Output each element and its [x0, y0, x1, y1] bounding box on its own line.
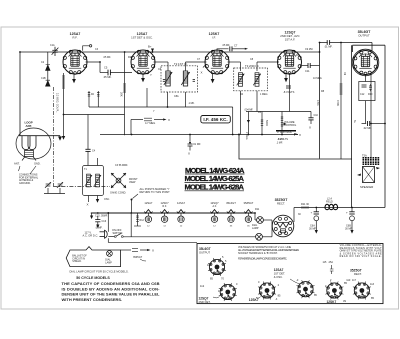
ground arrow under V1 — [73, 73, 75, 79]
capacitor C9 under V4 — [286, 85, 291, 87]
ground arrow under V2 — [142, 73, 144, 78]
svg-text:X: X — [188, 152, 190, 156]
svg-text:X: X — [152, 249, 154, 253]
svg-text:T5A: T5A — [362, 154, 367, 158]
dial lamp note in chart — [330, 265, 334, 274]
diode load resistor chain — [247, 112, 249, 135]
T2 secondary coil — [181, 71, 189, 86]
svg-text:.05 MF.: .05 MF. — [103, 75, 112, 79]
dial lamp lower — [256, 233, 263, 240]
IF transformer T2 dashed box — [161, 66, 198, 92]
svg-text:.1 MF.: .1 MF. — [188, 102, 195, 105]
electrolytic C6B — [351, 208, 353, 212]
wire: AVC line y=107 — [89, 106, 233, 108]
svg-text:2ND DET.: 2ND DET. — [199, 300, 211, 304]
svg-text:A.F.: A.F. — [212, 205, 216, 208]
svg-text:30 MF.: 30 MF. — [309, 227, 317, 230]
svg-text:117: 117 — [207, 264, 212, 267]
filter choke L2 — [325, 204, 338, 209]
heater H6 — [244, 210, 252, 223]
T3 primary coil — [237, 73, 245, 87]
socket S3 12SK7 — [258, 282, 276, 300]
wire: plug top to bus — [107, 213, 109, 232]
svg-text:2 MEG: 2 MEG — [245, 132, 248, 140]
heater H3 — [177, 210, 185, 223]
resistor R12 at power entry — [137, 213, 139, 226]
wire: right vertical x=385 — [384, 45, 386, 207]
svg-text:12SK7: 12SK7 — [327, 300, 337, 304]
svg-text:SHIELD.: SHIELD. — [72, 260, 82, 263]
wire: T2 secondary to V3 grid — [185, 62, 187, 71]
svg-text:C16: C16 — [102, 220, 107, 223]
svg-text:117: 117 — [218, 290, 223, 293]
wire: feed line — [246, 111, 311, 113]
svg-text:R12: R12 — [140, 219, 145, 222]
resistor R9 vertical — [340, 43, 342, 160]
wire: x=89 vertical — [88, 91, 90, 107]
svg-text:35L6GT: 35L6GT — [199, 247, 211, 251]
capacitor C10a to X — [310, 112, 312, 118]
MODEL text block — [185, 166, 246, 192]
svg-text:12SA7: 12SA7 — [274, 268, 284, 272]
svg-text:+: + — [311, 211, 313, 215]
socket S4 12SA7 — [297, 280, 315, 298]
heater voltage numbers — [147, 226, 250, 228]
svg-text:20K: 20K — [120, 92, 124, 97]
wire: V4 down to volume region — [289, 73, 291, 112]
wire: T3 secondary to V4 — [256, 62, 258, 71]
ground arrow under V3 — [212, 73, 214, 79]
svg-text:SOCKET TERMINALS & 'B' POINT.: SOCKET TERMINALS & 'B' POINT. — [238, 252, 278, 255]
capacitor C14 — [362, 123, 367, 125]
wire: v2 cathode vertical — [142, 73, 144, 107]
svg-text:4.7 MEG: 4.7 MEG — [145, 121, 155, 125]
wire: V1 plate to C5 — [86, 62, 100, 73]
wire: V5 plate down to T5 — [370, 74, 372, 159]
svg-text:R.F.: R.F. — [162, 205, 167, 208]
capacitor C5 coupling — [100, 72, 108, 74]
T2 trimmers — [163, 79, 165, 81]
on-off switch — [108, 236, 114, 238]
socket S5 12SK7 — [325, 282, 343, 300]
ground under T1 — [97, 196, 99, 200]
svg-text:1ST DET & OSC.: 1ST DET & OSC. — [131, 36, 153, 40]
resistor R3 horizontal — [131, 119, 143, 121]
svg-text:1 MEG: 1 MEG — [260, 93, 268, 96]
IF 456 KC badge — [201, 116, 231, 123]
output transformer T5 — [363, 158, 380, 183]
svg-text:& OSC.: & OSC. — [274, 275, 283, 279]
wire: AC line lower — [108, 238, 197, 242]
svg-text:RETURN TO THIS POINT: RETURN TO THIS POINT — [140, 190, 171, 194]
svg-text:R11 30: R11 30 — [301, 203, 309, 206]
ground arrow below R1 — [63, 115, 65, 137]
svg-text:117: 117 — [352, 279, 357, 282]
heater H1 — [144, 210, 152, 223]
wire: T2 secondary return — [185, 92, 187, 107]
svg-text:113: 113 — [370, 283, 375, 286]
wire: vertical through padders — [47, 52, 49, 86]
wire: Y node vertical — [131, 135, 133, 138]
heater H2 — [160, 210, 168, 223]
svg-text:RECT.: RECT. — [277, 202, 285, 206]
svg-text:-8 VOLTS: -8 VOLTS — [283, 90, 295, 94]
dial lamp upper — [257, 217, 264, 224]
svg-text:R10: R10 — [368, 93, 373, 96]
tube V5 35L6GT output — [352, 49, 379, 76]
volume control pot — [281, 112, 283, 135]
svg-text:OSC.: OSC. — [104, 198, 110, 201]
svg-text:.05 MF.: .05 MF. — [103, 56, 111, 59]
svg-text:GANG COND.: GANG COND. — [110, 192, 126, 195]
tube V1 12SA7 R.F. — [63, 50, 87, 74]
svg-text:12SA7: 12SA7 — [144, 201, 153, 205]
tube V3 12SK7 I.F. — [205, 50, 229, 74]
svg-text:30 MF.: 30 MF. — [345, 227, 353, 230]
svg-text:GROUND.: GROUND. — [19, 182, 31, 185]
svg-text:C1A: C1A — [50, 44, 55, 47]
svg-text:MODEL 14WG-628A: MODEL 14WG-628A — [185, 183, 245, 192]
svg-text:C11: C11 — [305, 69, 310, 73]
svg-text:500M: 500M — [265, 120, 268, 126]
svg-text:-3 VOLTS: -3 VOLTS — [277, 138, 288, 141]
heater bus — [91, 212, 255, 214]
svg-text:X: X — [299, 133, 301, 137]
svg-text:ANT.: ANT. — [14, 162, 20, 166]
svg-text:C5: C5 — [104, 66, 108, 70]
wire: verticals from R3 — [130, 120, 132, 135]
svg-text:112: 112 — [200, 284, 205, 288]
svg-text:R11: R11 — [255, 208, 260, 211]
svg-text:A.C. OR D.C.: A.C. OR D.C. — [83, 234, 99, 238]
resistor R2 vertical — [124, 52, 126, 114]
tuning gang symbol — [111, 173, 126, 188]
svg-text:.01 MF: .01 MF — [193, 142, 201, 146]
svg-text:OUTPUT: OUTPUT — [358, 34, 370, 38]
wire: main top B+ bus — [20, 51, 320, 53]
heater H5 — [227, 210, 235, 223]
svg-text:X: X — [87, 203, 89, 207]
svg-text:OUTPUT: OUTPUT — [199, 251, 210, 255]
wire: V2 cathode down — [146, 88, 148, 107]
svg-text:1ST DET.: 1ST DET. — [274, 271, 286, 275]
wire: output grid top line — [320, 42, 373, 44]
svg-text:R.F.: R.F. — [73, 36, 78, 40]
wire: T3 primary return — [240, 91, 242, 135]
tube V2 12SA7 1st det osc — [131, 50, 155, 74]
svg-text:35L6GT: 35L6GT — [226, 201, 236, 205]
svg-text:+: + — [346, 211, 348, 215]
coupling capacitor C11 V4 to V5 — [300, 65, 308, 67]
T2 primary coil — [164, 71, 172, 86]
heater H4 — [210, 210, 218, 223]
svg-text:1ST A.F.: 1ST A.F. — [285, 37, 296, 41]
wire: T3 secondary return — [256, 91, 258, 112]
B+ bus from rectifier — [294, 207, 385, 209]
svg-text:ANT.: ANT. — [26, 124, 33, 128]
svg-text:113: 113 — [346, 278, 351, 282]
svg-text:VIEW: VIEW — [129, 181, 136, 184]
node Y junction with C10 — [189, 142, 191, 144]
svg-text:CONTROL: CONTROL — [284, 124, 297, 127]
svg-text:35Z5GT: 35Z5GT — [350, 269, 362, 273]
svg-text:FIELD: FIELD — [326, 201, 333, 204]
T3 secondary coil — [253, 73, 261, 87]
svg-text:470K: 470K — [336, 100, 340, 106]
svg-text:.05 MF.: .05 MF. — [222, 44, 230, 47]
tube V6 35Z5GT rectifier — [272, 215, 294, 237]
svg-text:I.F.: I.F. — [212, 36, 216, 40]
leader arrows to ext ant text — [19, 166, 37, 174]
resistor R11 in B+ bus — [302, 206, 308, 209]
capacitor C7 on V3 top lead — [217, 49, 229, 52]
svg-text:C12: C12 — [360, 93, 365, 96]
socket voltage numbers — [207, 260, 375, 301]
inset dial lamp — [107, 251, 113, 257]
loop antenna — [16, 128, 51, 161]
electrolytic C6A — [315, 208, 317, 212]
T5 lead arrows — [357, 174, 361, 177]
dash-dot gang link vertical — [52, 87, 54, 187]
svg-text:.1 MF.: .1 MF. — [276, 141, 283, 144]
capacitor C2 padder arrow — [46, 80, 51, 86]
svg-text:SPEAKER: SPEAKER — [360, 185, 373, 189]
svg-text:B+: B+ — [148, 45, 152, 49]
svg-text:C8A: C8A — [174, 95, 179, 98]
svg-text:C15 .05MF.: C15 .05MF. — [95, 214, 108, 217]
50 cycle inset box — [66, 247, 120, 267]
svg-text:12SA7: 12SA7 — [177, 201, 186, 205]
svg-text:C3 56 MMF.: C3 56 MMF. — [115, 164, 128, 167]
trimmer pair under dash-dot — [45, 182, 51, 188]
svg-text:READ ON 300 VOLT SCALE.: READ ON 300 VOLT SCALE. — [340, 255, 382, 258]
svg-text:.02 MF.: .02 MF. — [363, 126, 372, 130]
wire: long AVC bus y=134.5 — [100, 134, 298, 136]
svg-text:.004 MF.: .004 MF. — [244, 109, 254, 112]
svg-text:X: X — [201, 71, 203, 75]
svg-text:35Z5GT: 35Z5GT — [133, 256, 143, 259]
wire: loop antenna top lead — [19, 135, 60, 137]
wire: vertical x=319.5 — [319, 43, 321, 159]
svg-text:12SK7: 12SK7 — [249, 298, 259, 302]
svg-text:GND.: GND. — [34, 162, 41, 166]
svg-text:LAMP: LAMP — [105, 261, 112, 264]
svg-text:DIAL LAMP CIRCUIT FOR 50 CYCLE: DIAL LAMP CIRCUIT FOR 50 CYCLE MODELS. — [70, 269, 129, 273]
C16 cap — [97, 213, 99, 220]
oscillator coil T1 — [83, 166, 104, 196]
wire: V2 plate to T2 — [154, 61, 168, 63]
wire: V5 cathode down through tone box — [365, 75, 367, 82]
svg-text:I.F. 456 KC.: I.F. 456 KC. — [203, 117, 227, 122]
svg-text:Y: Y — [150, 73, 152, 77]
capacity paragraph — [62, 281, 161, 302]
wire: corner x=239 — [239, 135, 352, 160]
svg-text:2.2 MEG. COUPL.: 2.2 MEG. COUPL. — [56, 93, 59, 113]
misc small value labels — [95, 44, 356, 216]
resistor hatch on x=89/98 leads — [88, 93, 100, 97]
svg-text:.05MF.: .05MF. — [95, 227, 103, 230]
wire: switch to right — [123, 236, 255, 238]
svg-text:35Z5GT: 35Z5GT — [243, 201, 253, 205]
svg-text:470K: 470K — [316, 100, 319, 106]
wire: T2 primary return — [167, 92, 169, 107]
wire: lamp connections — [254, 213, 256, 220]
wire: left column down from bus — [19, 52, 21, 136]
svg-text:SWITCH: SWITCH — [113, 232, 123, 235]
trimmer capacitor C1A on bus — [52, 47, 59, 56]
svg-text:C7: C7 — [234, 44, 238, 48]
svg-text:C9 250: C9 250 — [305, 48, 313, 51]
svg-text:.01 MF.: .01 MF. — [324, 45, 333, 49]
socket S2 12SQ7 — [219, 283, 237, 301]
svg-text:115: 115 — [323, 261, 327, 264]
svg-text:LAMP: LAMP — [252, 227, 259, 230]
wire: screen bus x=350.6 — [351, 45, 353, 207]
tone compensation network box — [359, 82, 375, 101]
wire: T1 top leads — [87, 115, 89, 150]
svg-text:FOR HEATER & DIAL LAMP VOLTAGE: FOR HEATER & DIAL LAMP VOLTAGES SEE SCHE… — [238, 258, 287, 261]
voltage chart box — [197, 244, 383, 304]
svg-text:.25A: .25A — [328, 261, 333, 264]
C15 cap to ground at bus left — [91, 213, 93, 216]
svg-text:C10: C10 — [314, 114, 319, 117]
capacitor C13 in top line — [327, 40, 329, 45]
capacitor C1B padder arrow — [46, 65, 51, 71]
svg-text:X: X — [309, 126, 311, 130]
svg-text:10 MEG: 10 MEG — [313, 77, 322, 80]
IF transformer T3 dashed box — [234, 68, 268, 91]
wire: y=114 with corner — [64, 115, 125, 136]
svg-text:50 CYCLE MODELS: 50 CYCLE MODELS — [76, 276, 110, 280]
power plug — [105, 230, 108, 238]
svg-text:WITH PRESENT CONDENSERS.: WITH PRESENT CONDENSERS. — [62, 297, 123, 302]
svg-text:117: 117 — [297, 290, 302, 293]
ground arrow at loop lead end — [58, 137, 62, 141]
grid cap terminal V1 — [83, 46, 90, 51]
svg-text:X: X — [168, 118, 170, 122]
resistor R1 vertical — [63, 73, 65, 115]
socket S6 35Z5GT — [353, 282, 371, 300]
svg-text:RECT.: RECT. — [354, 272, 362, 276]
tube V4 12SQ7 — [278, 50, 302, 74]
svg-text:C1B: C1B — [41, 77, 46, 80]
inset exit wire with resistor — [121, 249, 132, 251]
ground arrow under V4 — [285, 73, 287, 78]
capacitor C4 in T1 lead — [85, 148, 90, 150]
wire: V3 plate to T3 — [228, 61, 241, 63]
